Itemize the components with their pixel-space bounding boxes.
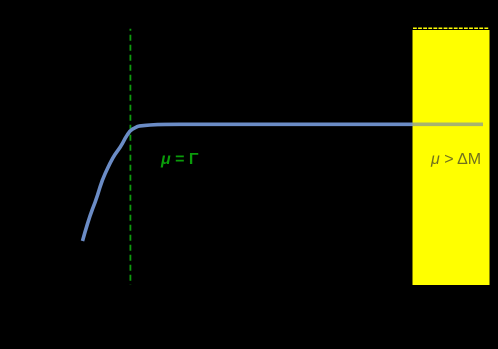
yellow region (mu > DeltaM band) — [413, 30, 490, 285]
green dashed vertical line at mu = Gamma — [129, 29, 131, 285]
blue curve — [83, 124, 414, 241]
svg-text:μ = Γ: μ = Γ — [160, 151, 199, 168]
svg-text:μ > ΔM: μ > ΔM — [430, 151, 481, 168]
dashed top edge of yellow region — [413, 27, 489, 29]
curve continuation under yellow band (blended olive) — [413, 123, 484, 127]
